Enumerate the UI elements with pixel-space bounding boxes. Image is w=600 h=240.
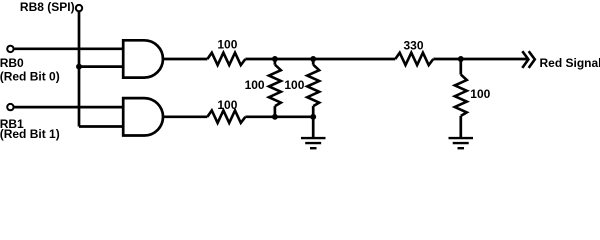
wire R3 top lead [274, 59, 277, 65]
node bottom rail at R4 [310, 114, 316, 120]
resistor R6 [455, 75, 467, 116]
wire U1 output [163, 58, 208, 61]
resistor R3 [269, 65, 281, 106]
and-gate U1 [123, 40, 163, 77]
node RB8 branch junction [76, 64, 82, 70]
svg-text:RB0: RB0 [0, 56, 24, 70]
wire RB8 to U2 input B [79, 125, 123, 128]
wire top rail R1 to R5 [245, 58, 395, 61]
resistor R2 [207, 111, 245, 123]
wire RB8 vertical [78, 12, 81, 127]
wire R6 bottom lead to ground [459, 116, 462, 137]
node bottom rail at R3 [272, 114, 278, 120]
svg-text:(Red Bit 0): (Red Bit 0) [0, 70, 60, 84]
svg-text:100: 100 [470, 87, 490, 101]
wire R5 to output [433, 58, 527, 61]
resistor R5 [395, 53, 433, 65]
ground under R6 [449, 138, 474, 148]
wire RB8 branch to U1 input B [79, 65, 123, 68]
wire U2 output [163, 115, 207, 118]
svg-text:330: 330 [403, 39, 423, 53]
resistor R1 [207, 53, 245, 65]
svg-text:(Red Bit 1): (Red Bit 1) [0, 127, 60, 141]
and-gate U2 [123, 98, 163, 135]
wire RB0 to U1 input A [14, 47, 123, 50]
node top rail at R3 [272, 56, 278, 62]
svg-text:100: 100 [245, 78, 265, 92]
wire R4 bottom lead to ground [312, 106, 315, 137]
wire R6 top lead [459, 59, 462, 75]
output chevron Red Signal [522, 51, 535, 68]
svg-text:100: 100 [217, 38, 237, 52]
wire RB1 to U2 input A [14, 106, 123, 109]
wire bottom rail R2 to R4 [245, 115, 313, 118]
svg-text:100: 100 [217, 98, 237, 112]
svg-text:Red Signal: Red Signal [540, 56, 600, 70]
ground under R4 [301, 138, 326, 148]
terminal RB8 [76, 5, 82, 11]
resistor R4 [307, 65, 319, 106]
svg-text:RB8 (SPI): RB8 (SPI) [20, 0, 75, 14]
wire R4 top lead [312, 59, 315, 65]
node top rail at R4 [310, 56, 316, 62]
terminal RB0 [7, 46, 13, 52]
svg-text:100: 100 [284, 78, 304, 92]
terminal RB1 [7, 104, 13, 110]
node top rail at R6 [458, 56, 464, 62]
wire R3 bottom lead [274, 106, 277, 117]
